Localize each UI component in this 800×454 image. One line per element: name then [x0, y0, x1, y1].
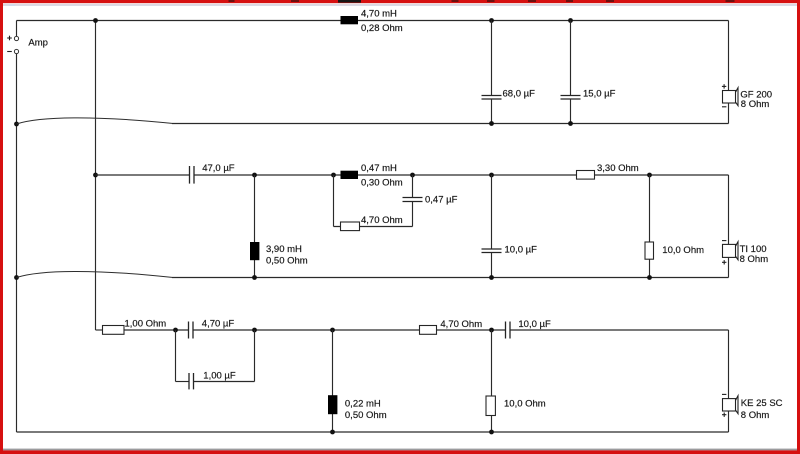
svg-text:10,0 Ohm: 10,0 Ohm: [662, 245, 704, 256]
svg-text:0,50 Ohm: 0,50 Ohm: [345, 410, 387, 421]
inductor 3,90 mH: [250, 175, 308, 278]
wire vertical feeder x95: [95, 21, 97, 331]
wire bottom feed corner: [96, 329, 104, 331]
node middle return / 10uF: [489, 275, 494, 280]
wire parallel bottom: [334, 226, 413, 228]
wire bottom rail a: [124, 329, 189, 331]
wire bottom return rail: [17, 431, 729, 433]
node middle rail / 10 Ohm: [647, 173, 652, 178]
svg-text:1,00 µF: 1,00 µF: [203, 370, 236, 381]
node bottom rail / 0.22mH: [330, 328, 335, 333]
wire parallel left drop: [333, 175, 335, 227]
svg-text:0,50 Ohm: 0,50 Ohm: [266, 255, 308, 266]
resistor 10,0 Ohm (bottom): [486, 330, 546, 432]
speaker GF 200: [722, 84, 772, 110]
inductor 0,47 mH: [341, 163, 403, 188]
svg-text:KE 25 SC: KE 25 SC: [741, 398, 783, 409]
capacitor 0,47 uF: [403, 175, 458, 227]
resistor 4,70 Ohm (bottom): [420, 319, 483, 334]
svg-text:4,70 Ohm: 4,70 Ohm: [361, 215, 403, 226]
svg-text:1,00 Ohm: 1,00 Ohm: [125, 319, 167, 330]
node left rail / top return: [14, 122, 19, 127]
node middle rail / parallel left: [331, 173, 336, 178]
node middle rail / 3.90mH: [252, 173, 257, 178]
wire bottom rail c: [510, 329, 729, 331]
svg-text:10,0 Ohm: 10,0 Ohm: [504, 399, 546, 410]
capacitor 4,70 uF (bottom series): [189, 319, 235, 339]
node top return / 15uF: [568, 121, 573, 126]
svg-text:Amp: Amp: [28, 38, 48, 49]
capacitor 15,0 uF: [561, 21, 616, 124]
wire KE return stub: [728, 411, 730, 432]
resistor 4,70 Ohm (parallel network): [341, 215, 403, 231]
wire bottom rail b: [193, 329, 506, 331]
svg-text:8 Ohm: 8 Ohm: [740, 254, 769, 265]
wire middle return rail: [172, 277, 729, 279]
inductor 4,70 mH: [341, 8, 403, 34]
node top return / 68uF: [489, 121, 494, 126]
wire bottom right rail: [728, 330, 730, 399]
amp - terminal: [7, 49, 18, 53]
inductor 0,22 mH: [328, 330, 387, 432]
wire top right rail: [728, 21, 730, 91]
capacitor 68,0 uF: [482, 21, 536, 124]
wire left rail: [16, 54, 18, 432]
node middle rail / feeder: [93, 173, 98, 178]
speaker TI 100: [722, 241, 768, 266]
svg-text:3,30 Ohm: 3,30 Ohm: [597, 163, 639, 174]
resistor 1,00 Ohm: [103, 319, 167, 335]
node middle return / 3.90mH: [252, 275, 257, 280]
resistor 10,0 Ohm (middle): [645, 175, 704, 278]
svg-text:8 Ohm: 8 Ohm: [741, 410, 770, 421]
capacitor 10,0 uF (middle): [482, 175, 538, 278]
wire middle rail left: [96, 174, 190, 176]
svg-text:0,47 µF: 0,47 µF: [425, 194, 458, 205]
svg-text:4,70 Ohm: 4,70 Ohm: [440, 319, 482, 330]
node middle rail / 10uF: [489, 173, 494, 178]
wire middle return curve: [17, 271, 173, 277]
svg-text:47,0 µF: 47,0 µF: [202, 163, 235, 174]
wire TI100 return stub: [728, 257, 730, 277]
node bottom rail / 1uF right: [252, 328, 257, 333]
svg-text:15,0 µF: 15,0 µF: [583, 89, 616, 100]
svg-text:0,47 mH: 0,47 mH: [361, 163, 397, 174]
wire GF200 return stub: [728, 103, 730, 124]
capacitor 10,0 uF (bottom series): [506, 319, 552, 339]
svg-text:3,90 mH: 3,90 mH: [266, 244, 302, 255]
node bottom return / 10 Ohm: [489, 430, 494, 435]
svg-text:10,0 µF: 10,0 µF: [518, 319, 551, 330]
svg-text:0,22 mH: 0,22 mH: [345, 399, 381, 410]
svg-text:0,30 Ohm: 0,30 Ohm: [361, 177, 403, 188]
node top rail / 68uF: [489, 18, 494, 23]
node left rail / middle return: [14, 275, 19, 280]
svg-text:10,0 µF: 10,0 µF: [505, 245, 538, 256]
svg-text:4,70 µF: 4,70 µF: [202, 319, 235, 330]
svg-text:4,70 mH: 4,70 mH: [361, 8, 397, 19]
node middle return / 10 Ohm: [647, 275, 652, 280]
wire top return rail: [172, 123, 729, 125]
node bottom rail / 1uF left: [173, 328, 178, 333]
svg-text:68,0 µF: 68,0 µF: [503, 89, 536, 100]
node bottom rail / 10 Ohm: [489, 328, 494, 333]
resistor 3,30 Ohm: [577, 163, 639, 179]
wire top rail: [17, 20, 729, 22]
wire middle rail right: [194, 174, 729, 176]
node top rail / 15uF: [568, 18, 573, 23]
node middle rail / parallel right: [410, 173, 415, 178]
capacitor 47,0 uF: [190, 163, 235, 183]
node top rail / feeder: [93, 18, 98, 23]
speaker KE 25 SC: [722, 394, 783, 421]
wire middle right rail: [728, 175, 730, 244]
svg-text:0,28 Ohm: 0,28 Ohm: [361, 23, 403, 34]
svg-text:8 Ohm: 8 Ohm: [741, 99, 770, 110]
node bottom return / 0.22mH: [330, 430, 335, 435]
capacitor 1,00 uF: [176, 330, 255, 389]
amp + terminal: [7, 36, 18, 41]
wire top return curve: [17, 118, 173, 124]
wire amp plus stub: [16, 21, 18, 37]
